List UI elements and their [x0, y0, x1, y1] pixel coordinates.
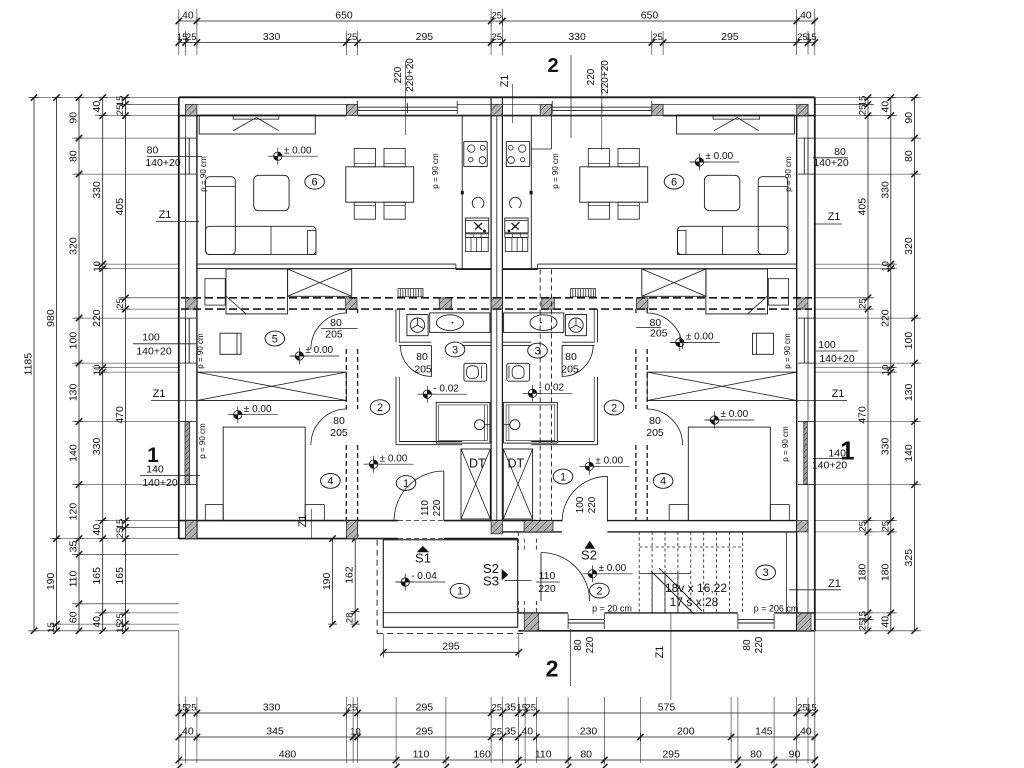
svg-text:220: 220	[586, 68, 597, 85]
svg-text:295: 295	[442, 641, 460, 653]
room5 pillow right	[768, 279, 788, 305]
svg-text:190: 190	[321, 572, 333, 590]
svg-text:100: 100	[818, 339, 836, 351]
left wall outer line	[178, 97, 180, 538]
stairwell edge dashed wall right unit	[539, 270, 541, 521]
svg-text:80: 80	[573, 639, 584, 651]
top extension lines	[178, 9, 180, 55]
svg-text:S2: S2	[581, 548, 597, 563]
svg-text:25: 25	[186, 32, 197, 43]
left wall mid segments	[185, 104, 187, 138]
gray columns top wall	[186, 104, 197, 115]
svg-text:80: 80	[649, 415, 661, 427]
svg-text:2: 2	[547, 55, 558, 77]
svg-text:330: 330	[263, 702, 281, 714]
svg-text:295: 295	[416, 31, 434, 43]
svg-text:± 0.00: ± 0.00	[284, 145, 312, 156]
kitchen sink deck left	[465, 234, 488, 237]
svg-text:295: 295	[416, 702, 434, 714]
svg-text:295: 295	[662, 749, 680, 761]
room4 nightstands right	[669, 505, 688, 521]
door room5 right	[647, 313, 683, 349]
svg-text:40: 40	[182, 726, 194, 738]
svg-text:3: 3	[534, 345, 540, 357]
svg-text:6: 6	[671, 176, 677, 188]
svg-text:120: 120	[68, 503, 80, 521]
bath counter and basin left	[430, 313, 490, 333]
svg-text:2: 2	[377, 402, 383, 414]
svg-text:25: 25	[492, 703, 503, 714]
wardrobe living left	[199, 115, 315, 134]
svg-text:25: 25	[880, 521, 891, 532]
svg-text:5: 5	[272, 333, 278, 345]
room number 2 left	[370, 400, 390, 415]
svg-text:140+20: 140+20	[145, 157, 180, 169]
kitchen sink left	[465, 218, 488, 233]
radiator comb left	[398, 289, 423, 297]
dining chairs left	[354, 148, 375, 166]
svg-text:110: 110	[420, 500, 431, 516]
svg-text:40: 40	[800, 10, 812, 22]
porch height chain 162/28	[354, 539, 356, 625]
bottom wall left unit outer line	[179, 538, 398, 540]
left dim chain 980/190/15	[56, 98, 58, 631]
svg-text:160: 160	[473, 749, 491, 761]
svg-text:345: 345	[266, 726, 284, 738]
svg-text:90: 90	[903, 112, 915, 124]
svg-text:980: 980	[45, 309, 57, 327]
stair window 80 right	[738, 619, 774, 621]
dimension row T2 (15/25/330/25/295/25/330/25/295/25/15)	[179, 42, 815, 44]
svg-text:330: 330	[263, 31, 281, 43]
svg-text:- 0.02: - 0.02	[539, 383, 565, 394]
room5 desk left	[220, 333, 241, 354]
svg-text:2: 2	[546, 656, 559, 682]
svg-text:100: 100	[575, 496, 586, 513]
svg-text:Z1: Z1	[654, 646, 666, 659]
stair break diagonals	[651, 571, 694, 614]
gray columns stair south wall	[524, 613, 539, 631]
svg-text:1: 1	[403, 478, 409, 490]
svg-text:15: 15	[858, 611, 869, 622]
sofa right unit	[758, 177, 788, 255]
svg-text:25: 25	[115, 298, 126, 309]
svg-text:110: 110	[68, 570, 80, 587]
porch height chain 190	[332, 539, 334, 625]
svg-text:10: 10	[92, 365, 103, 376]
svg-text:90: 90	[68, 112, 80, 124]
svg-text:2: 2	[611, 402, 617, 414]
svg-text:Z1: Z1	[828, 211, 841, 223]
left window 80 living	[185, 138, 187, 174]
level mark corridor right	[589, 462, 593, 466]
room4 bed right	[688, 427, 770, 520]
thin double line kitchen niche bottom left	[197, 263, 456, 265]
svg-text:1: 1	[560, 471, 566, 483]
right dim chain 40/330/10/220/10/330/25/180/40	[890, 98, 892, 631]
svg-text:40: 40	[91, 524, 103, 536]
left window 100 room5	[185, 318, 187, 363]
porch slab	[383, 540, 517, 628]
svg-text:140+20: 140+20	[136, 346, 171, 358]
svg-text:25: 25	[858, 105, 869, 116]
svg-text:220: 220	[587, 496, 598, 513]
bath walls right unit	[597, 309, 599, 342]
svg-text:± 0.00: ± 0.00	[244, 404, 272, 415]
svg-text:Z1: Z1	[297, 515, 309, 528]
svg-text:295: 295	[721, 31, 739, 43]
svg-text:140: 140	[146, 464, 164, 476]
kitchen drawers left	[466, 238, 489, 252]
svg-text:± 0.00: ± 0.00	[721, 409, 749, 420]
party wall	[490, 97, 492, 520]
svg-text:140: 140	[903, 444, 915, 462]
svg-text:10: 10	[880, 365, 891, 376]
door room4 left	[311, 409, 347, 445]
svg-text:230: 230	[580, 726, 598, 738]
svg-text:35: 35	[504, 726, 516, 738]
kitchen drawers right	[505, 238, 528, 252]
svg-text:15: 15	[115, 622, 126, 633]
bottom wall left unit inner line	[179, 520, 398, 522]
right horizontal extension lines	[815, 97, 921, 99]
room number 1 porch	[450, 583, 470, 598]
room number 1 left	[396, 476, 416, 491]
svg-text:DT: DT	[507, 457, 524, 471]
svg-text:330: 330	[879, 437, 891, 455]
door entry stair right	[562, 476, 607, 521]
room5 pillow left	[205, 279, 225, 305]
right window 80 living	[803, 138, 805, 174]
svg-text:650: 650	[335, 10, 353, 22]
kitchen sink deck right	[505, 234, 528, 237]
toilet left unit	[464, 363, 487, 381]
washing machine left	[407, 315, 428, 336]
right window 140 room4 hatched	[804, 422, 808, 485]
DT shaft left	[461, 449, 490, 519]
svg-text:25: 25	[186, 703, 197, 714]
right dim chain 15/25/405/25/470/25/180/15/25	[867, 98, 869, 631]
svg-text:15: 15	[858, 96, 869, 107]
svg-text:320: 320	[68, 237, 80, 255]
room number 2 stair	[590, 583, 610, 598]
svg-text:295: 295	[416, 726, 434, 738]
bottom extension lines	[178, 697, 180, 763]
svg-text:140+20: 140+20	[812, 459, 847, 471]
room4 bed left	[223, 427, 305, 520]
sofa left unit	[206, 177, 236, 255]
door entry porch left	[394, 471, 444, 521]
svg-text:p = 90 cm: p = 90 cm	[783, 333, 792, 369]
svg-text:4: 4	[660, 476, 666, 488]
bath counter and basin right	[504, 313, 564, 333]
room number 6 right	[664, 174, 684, 189]
room number 3 stair	[756, 565, 776, 580]
shower left unit	[436, 402, 490, 443]
dimension row B2 bottom	[179, 736, 815, 738]
door bath right	[562, 345, 593, 376]
horizontal dashed section band	[181, 297, 812, 299]
bottom wall door opening dashes	[398, 520, 444, 522]
svg-text:25: 25	[858, 521, 869, 532]
top window left unit 220	[358, 106, 458, 108]
svg-text:3: 3	[452, 344, 458, 356]
room number 6 left	[305, 174, 325, 189]
svg-text:200: 200	[677, 726, 695, 738]
svg-text:25: 25	[115, 528, 126, 539]
svg-text:p = 206 cm: p = 206 cm	[754, 604, 799, 614]
svg-text:180: 180	[857, 563, 869, 581]
svg-text:- 0.02: - 0.02	[433, 383, 459, 394]
svg-text:25: 25	[347, 703, 358, 714]
svg-text:330: 330	[568, 31, 586, 43]
bath walls left unit	[395, 309, 397, 342]
svg-text:1: 1	[457, 586, 463, 598]
svg-text:40: 40	[521, 726, 533, 738]
svg-text:60: 60	[68, 611, 80, 623]
top wall mid line	[186, 103, 358, 105]
svg-text:220+20: 220+20	[405, 58, 416, 92]
stair hall south wall	[518, 612, 568, 614]
coffee table right	[704, 175, 739, 210]
svg-text:p = 90 cm: p = 90 cm	[199, 156, 208, 192]
room5 bed right	[706, 269, 768, 314]
porch dashed offset	[376, 540, 378, 634]
svg-text:25: 25	[115, 105, 126, 116]
svg-text:± 0.00: ± 0.00	[305, 345, 333, 356]
svg-text:10: 10	[880, 261, 891, 272]
svg-text:40: 40	[91, 101, 103, 113]
level mark room4 left	[238, 411, 242, 415]
svg-text:80: 80	[565, 351, 577, 363]
svg-text:80: 80	[68, 150, 80, 162]
washing machine right	[565, 315, 586, 336]
level mark stair hall	[593, 570, 597, 574]
coffee table left	[254, 175, 289, 210]
dining table left	[346, 167, 414, 202]
svg-text:480: 480	[279, 749, 297, 761]
stair hall west wall dashed	[517, 532, 519, 553]
room4 nightstands left	[205, 505, 223, 521]
svg-text:40: 40	[879, 101, 891, 113]
tall cabinet right unit	[531, 148, 551, 150]
gray columns bottom wall	[186, 521, 197, 539]
svg-text:90: 90	[789, 749, 801, 761]
svg-text:100: 100	[903, 332, 915, 350]
right window 100 room5	[803, 318, 805, 363]
svg-text:470: 470	[114, 406, 126, 424]
level mark room5 left	[299, 352, 303, 356]
svg-text:35: 35	[504, 702, 516, 714]
svg-text:220: 220	[585, 636, 596, 653]
svg-text:80: 80	[750, 749, 762, 761]
stair hall top wall	[502, 531, 562, 533]
svg-text:205: 205	[646, 427, 664, 439]
svg-text:180: 180	[879, 563, 891, 581]
interior dashed wall left unit	[345, 309, 347, 313]
top wall outer line	[179, 96, 815, 98]
room number 4 left	[321, 474, 341, 489]
svg-text:Z1: Z1	[153, 388, 166, 400]
svg-text:p = 90 cm: p = 90 cm	[551, 153, 560, 189]
svg-text:205: 205	[561, 364, 579, 376]
svg-text:405: 405	[857, 198, 869, 216]
svg-text:330: 330	[91, 181, 103, 199]
level mark room4 right	[715, 416, 719, 420]
room4 wardrobe X right	[647, 372, 797, 400]
svg-text:165: 165	[114, 567, 126, 585]
svg-text:80: 80	[742, 639, 753, 651]
svg-text:140+20: 140+20	[819, 353, 854, 365]
room5 wardrobe X left	[288, 269, 352, 296]
svg-text:40: 40	[879, 616, 891, 628]
svg-text:205: 205	[325, 329, 343, 341]
svg-text:10: 10	[350, 727, 361, 738]
svg-text:35: 35	[68, 541, 80, 553]
porch dimension 295	[383, 651, 519, 653]
wardrobe living right	[677, 115, 795, 134]
svg-text:190: 190	[45, 572, 57, 590]
shower right unit	[504, 402, 558, 443]
svg-text:10: 10	[92, 261, 103, 272]
svg-text:- 0.04: - 0.04	[411, 571, 437, 582]
svg-text:650: 650	[641, 10, 659, 22]
svg-text:25: 25	[526, 703, 537, 714]
room5 top wall line left	[197, 268, 346, 270]
right wall inner line	[796, 116, 798, 631]
left horizontal extension lines	[28, 97, 179, 99]
svg-text:220: 220	[754, 636, 765, 653]
svg-text:1185: 1185	[23, 353, 35, 376]
toilet right unit	[507, 363, 530, 381]
svg-text:80: 80	[903, 150, 915, 162]
svg-text:140+20: 140+20	[813, 157, 848, 169]
room number 3 right	[528, 343, 548, 358]
svg-text:220: 220	[393, 66, 404, 83]
svg-text:DT: DT	[469, 457, 486, 471]
svg-text:25: 25	[652, 32, 663, 43]
dining chairs right	[588, 148, 609, 166]
svg-text:205: 205	[650, 328, 668, 340]
svg-text:15: 15	[806, 32, 817, 43]
dimension row B1 bottom	[179, 712, 815, 714]
svg-text:2: 2	[596, 585, 602, 597]
svg-text:p = 90 cm: p = 90 cm	[784, 156, 793, 192]
svg-text:± 0.00: ± 0.00	[595, 456, 623, 467]
section line 2 top	[570, 55, 572, 138]
room5 bed fold left	[226, 296, 246, 314]
svg-text:320: 320	[903, 237, 915, 255]
door room5 left	[311, 313, 347, 349]
svg-text:80: 80	[416, 351, 428, 363]
room number 1 right	[553, 469, 573, 484]
level mark living left	[278, 152, 282, 156]
svg-text:80: 80	[333, 415, 345, 427]
svg-text:± 0.00: ± 0.00	[705, 151, 733, 162]
level mark living right	[699, 158, 703, 162]
section line 2 bottom	[569, 629, 571, 686]
svg-text:165: 165	[91, 567, 103, 585]
dimension row B3 bottom	[179, 759, 815, 761]
left dim chain 1185	[33, 98, 35, 631]
svg-text:205: 205	[330, 427, 348, 439]
svg-text:575: 575	[658, 702, 676, 714]
gray columns mid dashed band	[186, 298, 197, 309]
svg-text:130: 130	[903, 383, 915, 401]
svg-text:25: 25	[347, 32, 358, 43]
thin double line kitchen niche bottom right	[538, 263, 797, 265]
svg-text:220: 220	[538, 583, 556, 595]
svg-text:S1: S1	[415, 551, 431, 566]
svg-text:25: 25	[492, 11, 503, 22]
svg-text:110: 110	[535, 749, 552, 761]
door room4 right	[647, 409, 683, 445]
right wall outer line	[814, 97, 816, 631]
svg-text:p = 20 cm: p = 20 cm	[592, 604, 632, 614]
svg-text:40: 40	[182, 10, 194, 22]
bottom partial 4th dimension row	[176, 764, 182, 768]
level mark porch	[405, 578, 409, 582]
svg-text:80: 80	[580, 749, 592, 761]
svg-text:p = 90 cm: p = 90 cm	[198, 423, 207, 459]
left dim chain 40/330/10/220/10/330/40/165/40	[102, 98, 104, 631]
svg-text:80: 80	[330, 317, 342, 329]
svg-text:28: 28	[345, 613, 356, 624]
door bath left	[400, 345, 431, 376]
kitchen cooktop right	[506, 142, 529, 167]
svg-text:162: 162	[344, 566, 356, 584]
svg-text:Z1: Z1	[832, 388, 845, 400]
top wall inner line	[179, 115, 346, 117]
svg-text:17 š x 28: 17 š x 28	[670, 595, 719, 609]
svg-text:Z1: Z1	[499, 75, 511, 88]
svg-text:130: 130	[68, 383, 80, 401]
svg-text:p = 90 cm: p = 90 cm	[431, 153, 440, 189]
kitchen counter edge right	[530, 116, 532, 270]
level mark wc left	[427, 390, 431, 394]
svg-text:325: 325	[903, 549, 915, 567]
svg-text:330: 330	[91, 437, 103, 455]
stair flight line	[639, 573, 691, 575]
svg-text:110: 110	[413, 749, 430, 761]
svg-text:p = 90 cm: p = 90 cm	[781, 426, 790, 462]
svg-text:15: 15	[46, 622, 57, 633]
room4 wardrobe X left	[197, 372, 346, 400]
marker S1 porch	[417, 546, 430, 552]
svg-text:18v x 16,22: 18v x 16,22	[665, 581, 727, 595]
room number 5 left	[265, 331, 285, 346]
svg-text:100: 100	[68, 332, 80, 350]
svg-text:110: 110	[539, 570, 556, 582]
stair flight dashed boundary	[639, 546, 742, 548]
left dim chain 90/80/320/100/130/140/120/35/110/60	[78, 98, 80, 631]
right wall mid segments	[807, 104, 809, 138]
svg-text:Z1: Z1	[828, 578, 841, 590]
svg-text:Z1: Z1	[159, 209, 172, 221]
level mark corridor left	[374, 460, 378, 464]
svg-text:100: 100	[142, 332, 160, 344]
top window right unit 220	[552, 106, 652, 108]
svg-text:140+20: 140+20	[142, 477, 177, 489]
svg-text:15: 15	[115, 519, 126, 530]
stair treads dashed	[638, 532, 640, 613]
stair upper flight edge line	[786, 532, 788, 613]
kitchen cooktop left	[464, 142, 487, 167]
stair window 80 left	[568, 619, 604, 621]
radiator comb right	[571, 289, 596, 297]
svg-text:80: 80	[147, 145, 159, 157]
room5 wardrobe X right	[642, 269, 706, 296]
